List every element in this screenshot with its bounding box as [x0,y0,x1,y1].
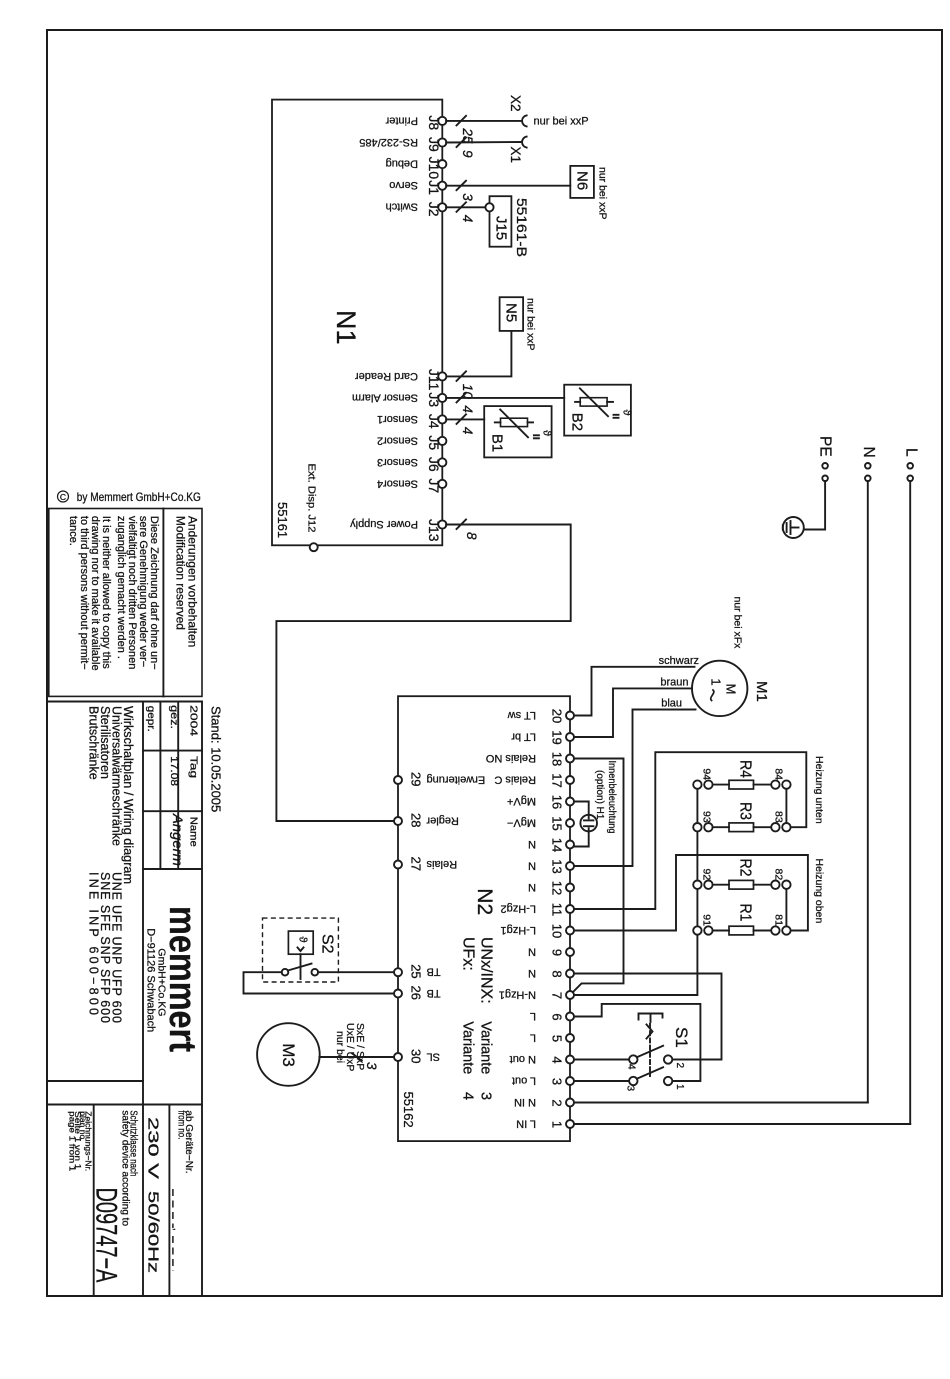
svg-text:9: 9 [460,150,475,158]
svg-text:L-Hzg2: L-Hzg2 [501,902,536,914]
svg-text:Regler: Regler [426,814,459,826]
terminal 30 SL [394,1049,440,1063]
svg-text:3: 3 [549,1078,564,1085]
earth ground symbol [783,517,804,538]
terminal 16 MgV+ [507,795,574,809]
svg-text:26: 26 [409,986,424,1000]
svg-text:83: 83 [772,811,784,823]
svg-text:N-Hzg1: N-Hzg1 [499,988,536,1000]
label Innenbeleuchtung (option) H1 [594,761,617,834]
svg-text:nur bei xFx: nur bei xFx [732,597,744,650]
svg-text:55161: 55161 [275,502,290,538]
svg-text:20: 20 [549,709,564,723]
svg-text:L: L [903,448,920,457]
connector J9 (RS-232/485) [359,136,446,152]
label UNx/INX: Variante 3 [478,937,495,1100]
svg-text:4: 4 [460,427,475,435]
svg-text:2: 2 [549,1099,564,1106]
svg-text:L out: L out [512,1074,536,1086]
svg-text:J4: J4 [426,414,442,429]
resistor R2 row [693,859,790,890]
svg-text:schwarz: schwarz [659,655,699,667]
wire J4 to B1 [446,414,484,434]
wire terminal 16 to H1 [574,802,589,815]
wire terminal 10 to 81 (Heizung oben feed) [574,855,808,931]
svg-text:S2: S2 [319,934,336,954]
svg-text:55161-B: 55161-B [514,198,530,257]
svg-text:29: 29 [409,772,424,786]
svg-text:C: C [60,492,66,502]
terminal 29 Erweiterung [394,772,485,786]
svg-text:tance.: tance. [67,516,79,546]
sensor B2 [564,385,632,436]
description Wirkschaltplan [87,706,136,1023]
svg-text:91: 91 [700,914,712,926]
svg-text:N: N [528,945,536,957]
terminal 1 L IN [516,1117,574,1129]
wire terminal 18 to terminal 7 (relay NO loop) [573,759,624,993]
svg-text:50/60Hz: 50/60Hz [145,1191,162,1273]
connector J7 (Sensor4) [377,477,446,493]
wire PE to earth [804,481,825,529]
terminal 11 L-Hzg2 [501,902,574,916]
svg-text:1: 1 [674,1084,685,1090]
svg-text:J7: J7 [426,478,442,493]
svg-text:L-Hzg1: L-Hzg1 [501,924,536,936]
terminal 4 N out [510,1053,574,1065]
text German disclaimer [115,516,160,670]
svg-text:15: 15 [549,816,564,830]
terminal 19 LT br [511,730,574,744]
svg-text:Relais C: Relais C [494,773,536,785]
connector J2 (Switch) [386,201,447,217]
connector J4 (Sensor1) [377,413,446,429]
svg-text:TB: TB [427,987,441,999]
connector J8 (Printer) [385,114,446,130]
svg-text:L IN: L IN [516,1117,536,1129]
copyright line [58,490,201,504]
svg-text:MgV−: MgV− [507,816,536,828]
svg-text:2: 2 [674,1063,685,1069]
svg-text:Printer: Printer [385,114,418,126]
svg-text:14: 14 [549,838,564,852]
lamp H1 [580,815,597,832]
connector Ext. Disp. J12 [306,464,318,552]
svg-text:Switch: Switch [386,201,418,213]
svg-text:B2: B2 [569,413,586,431]
svg-text:nur bei: nur bei [334,1031,346,1063]
terminal 3 L out [512,1074,574,1086]
svg-text:Sensor3: Sensor3 [377,456,418,468]
dashed enclosure S2 [263,918,339,982]
svg-text:ϑ: ϑ [541,430,553,436]
board N1 outline [272,100,442,546]
resistor R3 row [693,802,790,832]
svg-text:J13: J13 [426,519,442,542]
svg-text:12: 12 [549,881,564,895]
terminal 14 N [528,838,574,852]
svg-text:N: N [860,447,877,458]
terminal 5 L [530,1031,574,1043]
svg-text:27: 27 [409,857,424,871]
switch contact of S2 [282,964,318,976]
svg-text:93: 93 [700,811,712,823]
terminal 12 N [528,881,574,895]
motor M3 [257,1023,320,1086]
wire S2 right contact to terminal 25 [318,971,394,973]
svg-text:M3: M3 [279,1043,298,1067]
svg-text:Modification reserved: Modification reserved [174,516,188,630]
svg-text:Sensor1: Sensor1 [377,413,418,425]
connector J1 (Servo) [389,179,446,195]
wire terminal 2 to N [574,1102,868,1104]
resistor R4 row [693,760,790,789]
wire J3 to B2 [446,393,564,413]
cell ab Geraete-Nr. [171,1110,194,1271]
svg-text:Innenbeleuchtung: Innenbeleuchtung [606,761,617,834]
svg-text:R3: R3 [737,802,754,820]
svg-text:Variante: Variante [478,1021,494,1074]
svg-text:from no.: from no. [176,1110,187,1139]
terminal 7 N-Hzg1 [499,988,574,1000]
svg-text:3: 3 [625,1086,636,1092]
terminal N [860,447,877,482]
svg-text:MgV+: MgV+ [507,795,536,807]
svg-text:5: 5 [549,1035,564,1042]
svg-text:Relais NO: Relais NO [485,752,536,764]
svg-text:UNx/INX:: UNx/INX: [478,937,495,1004]
terminal 15 MgV- [507,816,574,830]
svg-text:N IN: N IN [514,1096,536,1108]
svg-text:Variante: Variante [460,1021,476,1074]
svg-text:30: 30 [409,1049,424,1063]
svg-text:N5: N5 [503,303,520,322]
svg-text:7: 7 [549,992,564,999]
wire J2 to J15 [446,202,486,222]
svg-text:Sensor4: Sensor4 [377,477,418,489]
terminal 2 N IN [514,1096,574,1108]
connector J13 (Power Supply) [350,518,447,542]
svg-text:18: 18 [549,752,564,766]
svg-text:gez.: gez. [168,705,180,729]
svg-text:N: N [528,881,536,893]
svg-text:Erweiterung: Erweiterung [427,773,486,785]
svg-text:J5: J5 [426,435,442,450]
svg-text:,: , [171,1228,182,1231]
svg-text:3: 3 [460,193,475,201]
svg-text:N6: N6 [574,171,591,190]
terminal 20 LT sw [508,709,574,723]
svg-text:J8: J8 [426,115,442,130]
svg-text:92: 92 [700,869,712,881]
svg-text:1: 1 [549,1121,564,1128]
svg-text:J1: J1 [426,180,442,195]
resistor R1 row [693,904,790,935]
svg-text:page 1 from 1: page 1 from 1 [67,1111,77,1171]
title block grid [47,702,202,1297]
label UFx: Variante 4 [460,937,477,1100]
motor M1 [692,661,747,716]
svg-text:230 V: 230 V [145,1117,162,1179]
svg-text:81: 81 [772,914,784,926]
svg-text:J15: J15 [493,216,510,240]
svg-text:N1: N1 [331,310,361,345]
svg-text:J11: J11 [426,369,442,391]
wire L down to terminal 1 [909,481,911,1124]
svg-text:11: 11 [549,903,564,917]
svg-text:LT sw: LT sw [508,709,536,721]
svg-text:ϑ: ϑ [621,410,633,416]
svg-text:LT br: LT br [511,730,536,742]
wire schwarz terminal 20 to M1 [574,667,695,716]
svg-text:3: 3 [364,1062,379,1070]
svg-text:17: 17 [549,773,564,787]
svg-text:8: 8 [464,532,479,540]
svg-text:J10: J10 [426,157,442,180]
terminal 27 Relais [394,857,457,871]
svg-text:PE: PE [816,436,833,457]
connector J3 (Sensor Alarm) [352,391,446,407]
svg-text:SL: SL [427,1050,440,1062]
svg-text:R2: R2 [737,859,754,877]
svg-text:nur bei xxP: nur bei xxP [534,115,589,127]
svg-text:B1: B1 [489,434,506,452]
svg-text:4: 4 [460,405,475,413]
connector X2 arc [522,115,527,126]
cell Zeichnungs-Nr. [67,1111,93,1171]
wire terminal 6 to S1 pin 1 [574,1004,700,1081]
svg-text:3: 3 [478,1092,494,1100]
text Anderungen vorbehalten [174,516,200,647]
cell 230 V 50/60Hz [145,1117,162,1273]
svg-text:84: 84 [772,768,784,780]
svg-text:Heizung unten: Heizung unten [813,756,825,824]
connector J5 (Sensor2) [377,434,446,450]
connector J11 (Card Reader) [355,369,447,391]
module N6 [570,166,594,198]
terminal 18 Relais NO [485,752,574,766]
svg-text:UFx:: UFx: [460,937,477,971]
svg-text:Relais: Relais [426,858,457,870]
svg-text:4: 4 [549,1056,564,1063]
switch S1 [625,1014,692,1092]
svg-text:82: 82 [772,869,784,881]
terminal L [903,448,920,481]
svg-text:13: 13 [549,859,564,873]
svg-text:8: 8 [549,970,564,977]
thermostat sensing element [288,931,313,979]
svg-text:4: 4 [626,1064,637,1070]
wire J8 to X2 [446,116,521,144]
terminal 8 N [528,967,574,979]
text English disclaimer [67,516,112,671]
svg-text:9: 9 [549,949,564,956]
svg-text:Ext. Disp. J12: Ext. Disp. J12 [306,464,318,533]
sensor B1 [484,406,552,457]
svg-text:gepr.: gepr. [145,706,157,732]
svg-text:55162: 55162 [401,1092,416,1128]
cell Schutzklasse [120,1110,139,1226]
svg-text:by Memmert GmbH+Co.KG: by Memmert GmbH+Co.KG [77,490,201,504]
svg-text:2004: 2004 [188,705,200,736]
wire J9 to X1 [446,138,521,159]
svg-text:L: L [530,1031,536,1043]
note nur bei UxE/UxP SxE/SxP [334,1023,366,1071]
wire J1 to N6 [446,181,570,202]
svg-text:J3: J3 [426,392,442,407]
svg-text:nur bei xxP: nur bei xxP [597,167,609,220]
terminal 17 Relais C [494,773,574,787]
wire N down to terminal 2 [867,481,869,1102]
svg-text:19: 19 [549,730,564,744]
svg-text:ϑ: ϑ [297,937,309,943]
wire terminal 4 to S1 pin 4 [574,1059,629,1061]
wire terminal 11 to 83 (Heizung unten feed) [574,752,806,909]
svg-text:N out: N out [510,1053,536,1065]
svg-text:16: 16 [549,795,564,809]
svg-text:Name: Name [188,817,200,847]
svg-text:N: N [528,967,536,979]
svg-text:N: N [528,838,536,850]
wire 84 to 83 [785,789,787,823]
svg-text:zuganglich gemacht werden .: zuganglich gemacht werden . [115,516,127,659]
svg-text:Debug: Debug [386,158,418,170]
svg-text:braun: braun [660,677,688,689]
svg-text:1: 1 [709,678,724,685]
memmert logo [145,906,204,1052]
terminal 6 L [530,1010,574,1022]
heater bus wire (94-93-92-91 to terminal 7) [574,785,697,995]
wire blau terminal 13 to M1 [574,710,696,867]
svg-text:X2: X2 [508,95,523,112]
svg-text:4: 4 [460,1092,476,1100]
svg-text:D−91126 Schwabach: D−91126 Schwabach [145,928,157,1032]
svg-text:(option) H1: (option) H1 [594,770,605,820]
svg-text:M: M [724,684,739,695]
wire braun terminal 19 to M1 [574,688,692,737]
svg-text:6: 6 [549,1013,564,1020]
connector J10 (Debug) [386,157,447,180]
svg-text:L: L [530,1010,536,1022]
svg-text:X1: X1 [508,147,523,164]
terminal 26 TB [394,986,441,1000]
wire S2 left contact to terminal 26 [244,972,395,993]
svg-text:D09747−A: D09747−A [90,1188,123,1283]
board N2 outline [398,696,570,1141]
wire terminal 30 to M3 [319,1053,394,1070]
terminal 9 N [528,945,574,957]
wire 82 to 81 [785,889,787,926]
svg-text:S1: S1 [672,1027,691,1048]
connector block J15 / 55161-B [485,196,511,247]
svg-text:blau: blau [661,698,682,710]
svg-text:Power Supply: Power Supply [350,518,418,530]
svg-text:RS-232/485: RS-232/485 [359,136,418,148]
svg-text:Servo: Servo [389,179,418,191]
wire H1 to terminal 14 [574,831,589,846]
terminal 10 L-Hzg1 [501,924,574,938]
svg-text:28: 28 [409,813,424,827]
module N5 [500,297,523,331]
svg-text:Sensor Alarm: Sensor Alarm [352,391,418,403]
svg-text:Brutschränke: Brutschränke [87,706,101,780]
svg-text:4: 4 [460,215,475,223]
wire J13 to terminal 28 [276,520,570,822]
svg-text:R1: R1 [737,904,754,922]
svg-text:J2: J2 [426,202,442,217]
wire terminal 3 to S1 pin 3 [574,1080,629,1082]
svg-text:J9: J9 [426,137,442,152]
svg-text:Card Reader: Card Reader [355,370,418,382]
svg-text:M1: M1 [753,681,770,702]
svg-text:Angerm: Angerm [170,813,186,866]
svg-text:TB: TB [427,966,441,978]
disclaimer box [49,509,202,697]
connector X1 arc [522,137,527,148]
wire terminal 1 to L [574,1123,910,1125]
svg-text:Tag: Tag [188,756,200,778]
svg-text:Stand: 10.05.2005: Stand: 10.05.2005 [209,706,224,812]
table gez/gepr texts [145,705,200,847]
svg-text:N2: N2 [473,888,496,915]
svg-text:10: 10 [549,924,564,938]
terminal 13 N [528,859,574,873]
terminal 25 TB [394,964,441,978]
svg-text:N: N [528,859,536,871]
svg-text:25: 25 [409,964,424,978]
svg-text:Heizung oben: Heizung oben [813,859,825,924]
svg-text:94: 94 [700,768,712,780]
svg-text:R4: R4 [737,760,754,778]
svg-text:Sensor2: Sensor2 [377,434,418,446]
wire terminal 8 to S1 pin 2 [574,974,722,1060]
svg-text:nur bei xxP: nur bei xxP [525,298,537,351]
terminal 28 Regler [394,813,459,827]
svg-text:17.08: 17.08 [168,756,180,786]
connector J6 (Sensor3) [377,456,446,472]
wire N5 to J11 [446,331,511,400]
svg-text:J6: J6 [426,457,442,472]
terminal PE [816,436,833,481]
